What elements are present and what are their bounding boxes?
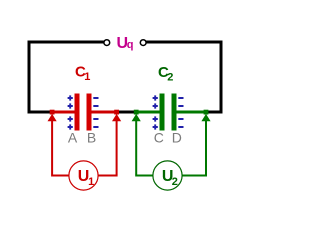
- node: junction dot left of C2: [134, 110, 139, 115]
- minus charge signs right of plate D: [178, 98, 183, 127]
- arrow: U1 right probe arrowhead: [112, 114, 121, 121]
- wire: top-right horizontal segment: [146, 41, 223, 44]
- wire: U1 right horizontal lead: [98, 175, 118, 177]
- node: junction dot left of C1: [50, 110, 55, 115]
- wire: U2 left horizontal lead: [135, 175, 154, 177]
- label C1: [75, 63, 90, 83]
- wire: red segment into plate A: [51, 111, 75, 114]
- capacitor C2 plate D: [172, 94, 177, 131]
- node: junction dot right of C2: [204, 110, 209, 115]
- wire: U2 right horizontal lead: [182, 175, 207, 177]
- arrow: U2 left probe arrowhead: [132, 114, 141, 121]
- node: junction dot right of C1: [114, 110, 119, 115]
- svg-text:q: q: [127, 39, 134, 51]
- plus charge signs left of plate A: [68, 95, 73, 129]
- wire: green segment into plate C: [136, 111, 160, 114]
- wire: U1 left horizontal lead: [51, 175, 70, 177]
- svg-text:1: 1: [88, 176, 94, 188]
- svg-text:B: B: [87, 129, 96, 145]
- arrow: U2 right probe arrowhead: [201, 114, 210, 121]
- wire: red segment from plate B: [92, 111, 118, 114]
- arrow: U1 left probe arrowhead: [48, 114, 57, 121]
- wire: mid black segment center (between C1 and C2): [117, 111, 137, 114]
- plus charge signs left of plate C: [153, 95, 158, 129]
- wire: left vertical: [28, 41, 31, 114]
- wire: right vertical: [220, 41, 223, 114]
- wire: U1 right probe vertical: [116, 121, 118, 175]
- label U2: [162, 168, 178, 188]
- wire: mid black segment left: [28, 111, 52, 114]
- capacitor C1 plate A: [75, 94, 80, 131]
- label C2: [158, 64, 173, 84]
- voltmeter U1 circle: [69, 161, 98, 190]
- label U1: [78, 168, 94, 188]
- svg-text:D: D: [172, 129, 182, 145]
- capacitor C1 plate B: [87, 94, 92, 131]
- svg-text:2: 2: [167, 71, 173, 83]
- minus charge signs right of plate B: [93, 98, 98, 127]
- wire: U2 right probe vertical: [205, 121, 207, 175]
- wire: mid black segment right: [206, 111, 223, 114]
- svg-text:2: 2: [172, 176, 178, 188]
- svg-text:C: C: [154, 129, 164, 145]
- terminal: left open circle of source Uq: [104, 40, 110, 46]
- svg-text:A: A: [68, 129, 78, 145]
- voltmeter U2 circle: [153, 161, 182, 190]
- label Uq: [117, 35, 134, 52]
- wire: U2 left probe vertical: [135, 121, 137, 175]
- terminal: right open circle of source Uq: [140, 40, 146, 46]
- capacitor C2 plate C: [160, 94, 165, 131]
- wire: green segment from plate D: [177, 111, 207, 114]
- wire: U1 left probe vertical: [51, 121, 53, 175]
- svg-text:1: 1: [84, 71, 90, 83]
- wire: top-left horizontal segment: [28, 41, 105, 44]
